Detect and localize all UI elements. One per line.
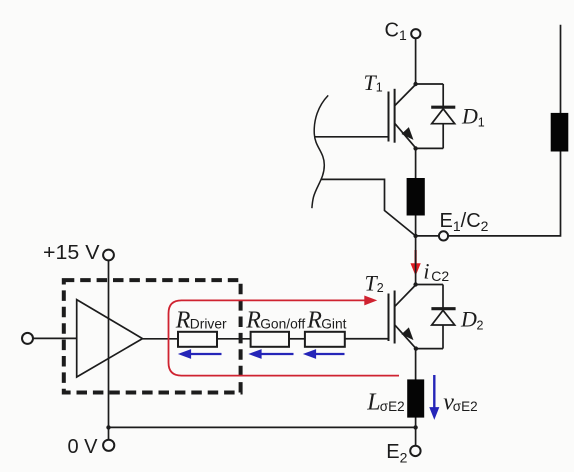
inductor LσE2 (filled): [407, 379, 424, 417]
svg-text:σE2: σE2: [380, 399, 405, 414]
svg-text:Gon/off: Gon/off: [260, 317, 305, 332]
svg-text:2: 2: [477, 319, 484, 333]
blue arrow under RGon/off: [250, 350, 294, 358]
wire 0V stub: [108, 427, 110, 439]
svg-text:Gint: Gint: [321, 317, 346, 332]
wire driver output: [143, 338, 179, 340]
svg-text:0 V: 0 V: [68, 436, 99, 458]
wire C1 to T1 collector: [415, 38, 417, 84]
svg-text:R: R: [175, 308, 191, 334]
blue arrow under RDriver: [179, 350, 221, 358]
svg-text:D: D: [461, 104, 478, 129]
node T1 emitter: [413, 146, 417, 150]
terminal driver input: [22, 333, 33, 344]
svg-text:E2: E2: [386, 441, 407, 466]
svg-text:R: R: [245, 308, 261, 334]
wire node to terminal: [416, 235, 439, 237]
red gate current loop: [169, 296, 400, 375]
node E1/C2: [413, 234, 417, 238]
tear (wavy break symbol): [312, 95, 328, 208]
transistor T1 (IGBT): [315, 85, 416, 149]
dashed driver box: [64, 280, 241, 392]
wire RGint to T2 gate: [345, 338, 389, 340]
wire 0V rail: [109, 426, 416, 428]
wire +15V supply down to 0V rail: [108, 260, 110, 427]
bus stray inductance (filled): [551, 113, 569, 152]
op-amp driver triangle: [77, 300, 143, 377]
svg-text:+15 V: +15 V: [43, 242, 100, 264]
node T2 collector: [413, 282, 417, 286]
terminal C1: [411, 29, 420, 38]
svg-text:Driver: Driver: [190, 317, 227, 332]
node T2 emitter: [414, 346, 418, 350]
svg-text:2: 2: [377, 281, 384, 295]
terminal E1/C2: [439, 231, 448, 240]
svg-text:E1/C2: E1/C2: [440, 210, 489, 234]
svg-text:1: 1: [376, 81, 383, 95]
wire RGon/off to RGint: [289, 338, 305, 340]
stray inductance (emitter parasitic, filled): [407, 178, 425, 216]
wire T2 emitter to E2: [415, 349, 417, 428]
blue arrow under RGint: [304, 350, 344, 358]
resistor RDriver: [178, 332, 217, 347]
svg-text:1: 1: [478, 116, 485, 130]
svg-text:D: D: [460, 307, 477, 332]
voltage arrow vσE2 (blue): [430, 375, 439, 419]
terminal E2: [410, 446, 420, 456]
diode D2: [416, 285, 456, 349]
resistor RGon/off: [251, 332, 289, 347]
wire RDriver to RGon/off: [217, 338, 251, 340]
svg-text:C1: C1: [385, 19, 407, 43]
svg-text:σE2: σE2: [453, 399, 478, 414]
svg-text:C2: C2: [431, 268, 449, 284]
wire E1/C2 to T2 collector: [415, 236, 417, 285]
diode D1: [416, 84, 456, 148]
node E2: [413, 425, 417, 429]
node T1 collector: [413, 82, 417, 86]
node 0V: [106, 425, 110, 429]
resistor RGint: [305, 332, 345, 347]
current arrow iC2 (red): [411, 250, 420, 275]
terminal 0V: [103, 440, 114, 451]
wire E1/C2 to DC bus: [448, 25, 560, 236]
svg-text:R: R: [306, 308, 322, 334]
wire node to E2 terminal: [415, 427, 417, 446]
wire T1 emitter to E1/C2: [415, 148, 417, 236]
wire auxiliary emitter path: [322, 179, 416, 236]
svg-text:L: L: [366, 389, 380, 415]
wire input to driver: [33, 337, 77, 339]
terminal +15V: [103, 250, 114, 261]
svg-text:i: i: [423, 258, 429, 283]
transistor T2 (IGBT): [345, 285, 416, 348]
